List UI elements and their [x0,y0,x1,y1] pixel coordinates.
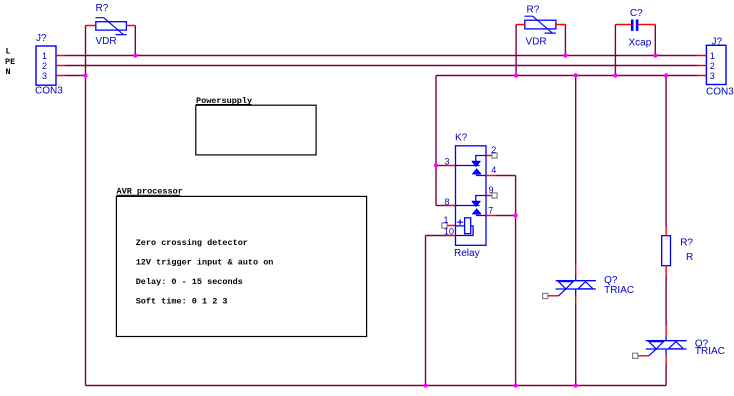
wire L net horizontal [65,55,697,57]
svg-text:TRIAC: TRIAC [695,346,725,357]
wire R1/TRIAC2 branch vertical upper [665,76,667,228]
junction rail at pin10 [423,383,427,387]
junction L at VDR1 right [133,53,137,57]
svg-text:Delay: 0 - 15 seconds: Delay: 0 - 15 seconds [136,277,243,287]
svg-text:C?: C? [630,8,643,19]
svg-text:1: 1 [42,51,47,61]
wire VDR2 right lead vertical [564,25,566,56]
svg-text:J?: J? [712,37,723,48]
svg-text:J?: J? [36,33,47,44]
wire relay pin8 branch [436,205,446,207]
svg-text:R?: R? [527,5,540,16]
junction relay pin3 [434,163,438,167]
junction N at VDR2 left [514,73,518,77]
capacitor C1 Xcap [615,20,655,31]
svg-text:1: 1 [710,51,715,61]
svg-text:3: 3 [710,71,715,81]
wire relay pin10 vertical to rail [425,236,427,386]
triac Q2 [633,326,687,363]
svg-text:Relay: Relay [454,248,480,259]
wire N net left stub [65,75,86,77]
wire N net left vertical [85,26,87,386]
wire Xcap right lead vertical [654,25,656,56]
wire PE net horizontal [65,65,697,67]
svg-text:2: 2 [710,61,715,71]
wire relay pin4 to vertical [496,175,516,177]
wire N to relay pin3/pin8 vertical [435,76,437,206]
wire relay pin3 branch [436,165,446,167]
relay K1 [442,146,497,246]
svg-text:R?: R? [680,238,693,249]
wire TRIAC1 branch vertical upper [575,76,577,266]
svg-text:K?: K? [455,133,468,144]
svg-text:9: 9 [489,185,494,195]
wire VDR2 left lead vertical [515,25,517,76]
svg-text:R: R [686,252,693,263]
wire relay pin10 horizontal [426,235,446,237]
svg-text:8: 8 [444,197,449,207]
svg-text:10: 10 [444,227,454,237]
svg-text:Soft time: 0 1 2 3: Soft time: 0 1 2 3 [136,297,228,307]
svg-text:Xcap: Xcap [629,38,652,49]
junction rail at TRIAC1 [574,383,578,387]
svg-text:R?: R? [96,3,109,14]
junction N at VDR1 left [83,73,87,77]
connector J2 CON3 [697,45,726,84]
svg-text:Zero crossing detector: Zero crossing detector [136,238,248,248]
wire Xcap left lead vertical [614,25,616,76]
wire R1 to TRIAC2 vertical [665,275,667,326]
varistor R1 VDR left [86,18,136,35]
junction L at VDR2 right [563,53,567,57]
Powersupply annotation box [196,105,316,155]
junction L at Xcap right [653,53,657,57]
wire VDR1 right lead vertical [134,26,136,56]
svg-text:CON3: CON3 [706,87,734,98]
resistor R3 [662,236,671,266]
svg-text:2: 2 [42,61,47,71]
svg-text:N: N [6,67,11,77]
svg-text:12V trigger input & auto on: 12V trigger input & auto on [136,257,274,267]
connector J1 CON3 [36,46,65,85]
junction rail at pin4 [513,383,517,387]
svg-text:CON3: CON3 [35,86,63,97]
wire N net bottom rail [86,385,667,387]
svg-text:TRIAC: TRIAC [604,285,634,296]
svg-text:PE: PE [5,57,15,67]
wire TRIAC2 bottom vertical [665,363,667,385]
svg-text:L: L [6,47,11,57]
wire N net right horizontal [436,75,697,77]
wire relay pin7 to vertical [496,215,516,217]
junction relay pin7 [513,213,517,217]
varistor R2 VDR right [516,16,565,33]
junction N at Xcap left [613,73,617,77]
svg-text:4: 4 [491,165,496,175]
svg-text:7: 7 [488,205,493,215]
svg-text:3: 3 [42,71,47,81]
wire TRIAC1 branch vertical lower [575,305,577,386]
svg-text:VDR: VDR [526,37,547,48]
junction N at R3 branch [664,73,668,77]
triac Q1 [543,265,596,305]
junction N at TRIAC1 branch [574,73,578,77]
wire relay pin4/pin7 vertical to rail [515,176,517,386]
AVR processor annotation box [116,196,366,336]
svg-text:VDR: VDR [96,36,117,47]
svg-text:1: 1 [443,215,448,225]
svg-text:3: 3 [444,157,449,167]
svg-text:2: 2 [491,145,496,155]
